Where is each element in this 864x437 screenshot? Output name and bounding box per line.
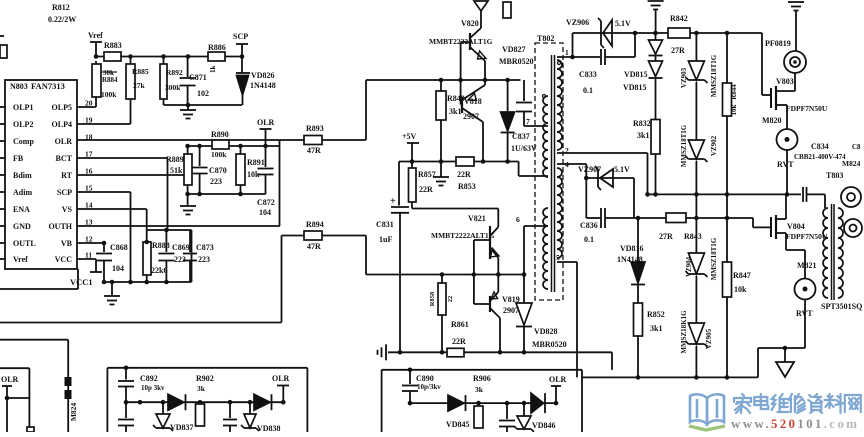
svg-text:5: 5 [556,253,560,262]
svg-text:M824: M824 [69,403,78,422]
svg-text:R891: R891 [247,158,265,167]
svg-text:MMSZ18T1G: MMSZ18T1G [710,237,718,280]
svg-text:0.22/2W: 0.22/2W [48,15,76,24]
svg-text:VD827: VD827 [502,45,526,54]
svg-text:MMSZ18T1G: MMSZ18T1G [680,124,688,167]
svg-text:MMBT2222ALT1G: MMBT2222ALT1G [431,231,495,240]
svg-text:1: 1 [565,48,569,57]
svg-text:C873: C873 [196,243,214,252]
svg-text:10k: 10k [730,104,738,115]
svg-text:R902: R902 [196,374,214,383]
svg-text:T802: T802 [537,34,554,43]
svg-text:V803: V803 [776,77,794,86]
svg-text:MMSZ18K1G: MMSZ18K1G [680,310,688,354]
svg-text:MBR0520: MBR0520 [499,57,534,66]
svg-text:223: 223 [198,255,210,264]
svg-text:Adim: Adim [13,188,32,197]
svg-text:10p 3kv: 10p 3kv [141,384,165,392]
svg-text:C837: C837 [512,132,530,141]
svg-text:C892: C892 [140,374,158,383]
svg-text:3k: 3k [197,384,206,393]
svg-text:47R: 47R [307,146,321,155]
svg-text:51k: 51k [170,166,183,175]
svg-text:VCC: VCC [55,255,73,264]
svg-text:OLR: OLR [55,137,73,146]
svg-text:MBR0520: MBR0520 [532,340,567,349]
svg-text:27k: 27k [133,81,146,90]
svg-text:OLP5: OLP5 [52,103,72,112]
svg-text:R885: R885 [132,67,149,76]
svg-text:FAN7313: FAN7313 [31,81,65,91]
svg-text:VD815: VD815 [623,83,647,92]
svg-text:C8: C8 [852,143,861,151]
svg-text:RVT: RVT [777,160,794,169]
svg-text:R843: R843 [684,232,702,241]
svg-text:T803: T803 [826,171,843,180]
svg-text:FDPF7N50U: FDPF7N50U [786,104,828,113]
svg-text:R906: R906 [473,374,491,383]
svg-text:SCP: SCP [57,188,72,197]
svg-text:C831: C831 [376,220,394,229]
svg-text:R883: R883 [104,41,122,50]
svg-text:C833: C833 [579,70,597,79]
svg-text:R844: R844 [730,84,738,100]
svg-text:C870: C870 [209,166,227,175]
svg-text:Vref: Vref [13,255,28,264]
svg-text:+5V: +5V [402,132,417,141]
svg-text:VZ904: VZ904 [685,256,693,277]
svg-text:VS: VS [62,205,73,214]
svg-text:3k1: 3k1 [637,131,649,140]
svg-text:VCC1: VCC1 [70,277,93,287]
svg-text:R884: R884 [102,76,118,84]
svg-text:2907: 2907 [463,112,479,121]
svg-text:1uF: 1uF [379,235,392,244]
svg-text:R886: R886 [208,43,226,52]
svg-text:10k: 10k [734,285,747,294]
svg-text:C834: C834 [811,142,829,151]
svg-text:VZ906: VZ906 [566,18,589,27]
svg-text:OLR: OLR [549,375,567,384]
svg-text:N803: N803 [10,82,28,91]
svg-text:R890: R890 [211,130,229,139]
svg-text:R847: R847 [733,271,751,280]
svg-text:R892: R892 [166,68,183,77]
svg-text:V818: V818 [464,97,482,106]
svg-text:R894: R894 [306,220,324,229]
svg-text:VD845: VD845 [446,420,470,429]
svg-text:R832: R832 [633,119,651,128]
svg-text:0.1: 0.1 [584,235,594,244]
svg-text:47R: 47R [307,242,321,251]
svg-text:V820: V820 [461,19,479,28]
svg-text:10p/3kv: 10p/3kv [417,383,441,391]
svg-text:27R: 27R [671,46,685,55]
svg-text:R857: R857 [418,170,436,179]
svg-text:Bdim: Bdim [13,171,32,180]
svg-text:22R: 22R [452,337,466,346]
svg-text:1k: 1k [209,66,217,74]
svg-text:102: 102 [197,89,209,98]
svg-text:VD838: VD838 [257,424,281,432]
svg-text:R853: R853 [458,182,476,191]
svg-text:BCT: BCT [56,154,73,163]
svg-text:OUTL: OUTL [13,239,36,248]
svg-text:7: 7 [526,117,530,126]
svg-text:VZ902: VZ902 [710,135,718,156]
svg-text:300k: 300k [165,83,181,92]
svg-text:R893: R893 [306,124,324,133]
svg-text:OLP2: OLP2 [13,120,33,129]
svg-text:VZ905: VZ905 [705,328,713,349]
svg-text:PF0819: PF0819 [765,39,791,48]
svg-text:SPT3501SQ: SPT3501SQ [821,302,862,311]
svg-text:VD816: VD816 [620,244,644,253]
svg-text:3k1: 3k1 [449,107,461,116]
svg-text:0.1: 0.1 [583,86,593,95]
svg-text:www.520101.com: www.520101.com [731,416,859,431]
svg-text:VD828: VD828 [534,327,558,336]
svg-text:VD837: VD837 [170,423,194,432]
svg-text:104: 104 [112,264,124,273]
svg-text:Vref: Vref [88,31,103,40]
svg-text:R861: R861 [451,320,469,329]
svg-text:22R: 22R [457,170,471,179]
svg-text:R842: R842 [670,14,688,23]
svg-text:22: 22 [447,296,454,303]
svg-text:6: 6 [516,215,520,224]
svg-text:RT: RT [61,171,72,180]
svg-text:5.1V: 5.1V [615,19,631,28]
svg-text:VD815: VD815 [624,70,648,79]
svg-text:C836: C836 [580,221,598,230]
svg-text:R889: R889 [166,155,184,164]
svg-text:223: 223 [210,177,222,186]
svg-text:OLR: OLR [257,118,275,127]
svg-text:VD826: VD826 [251,71,275,80]
svg-text:OUTH: OUTH [48,222,72,231]
svg-text:OLP1: OLP1 [13,103,33,112]
svg-text:OLP4: OLP4 [52,120,72,129]
svg-text:22R: 22R [419,185,433,194]
svg-text:1N4148: 1N4148 [617,255,643,264]
svg-text:223: 223 [174,255,186,264]
svg-text:M820: M820 [762,116,782,125]
svg-text:100k: 100k [101,90,117,99]
svg-text:C872: C872 [257,198,275,207]
svg-text:C871: C871 [189,73,207,82]
svg-text:M824: M824 [842,159,861,168]
svg-text:V821: V821 [468,214,486,223]
svg-text:FB: FB [13,154,24,163]
svg-text:1N4148: 1N4148 [250,81,276,90]
svg-text:22k6: 22k6 [151,266,167,275]
svg-text:V804: V804 [787,222,805,231]
svg-text:Comp: Comp [13,137,34,146]
svg-text:C869: C869 [172,243,190,252]
svg-text:1U/63V: 1U/63V [511,144,537,153]
svg-text:27R: 27R [659,232,673,241]
svg-text:ENA: ENA [13,205,30,214]
svg-text:SCP: SCP [233,32,248,41]
svg-text:MMSZ18T1G: MMSZ18T1G [710,54,718,97]
svg-text:100k: 100k [211,150,227,159]
svg-text:3k1: 3k1 [650,324,662,333]
svg-text:R858: R858 [429,291,436,306]
svg-text:OLR: OLR [1,375,19,384]
svg-text:104: 104 [259,208,271,217]
svg-text:C890: C890 [416,374,434,383]
svg-text:VB: VB [61,239,73,248]
svg-text:GND: GND [13,222,31,231]
svg-text:R812: R812 [52,3,70,12]
svg-text:+: + [390,196,396,207]
svg-text:R852: R852 [647,310,665,319]
svg-text:MMBT2222ALT1G: MMBT2222ALT1G [429,37,493,46]
svg-text:OLR: OLR [272,374,290,383]
svg-text:C868: C868 [110,243,128,252]
svg-text:5.1V: 5.1V [614,165,630,174]
svg-text:VZ903: VZ903 [680,67,688,88]
svg-text:M821: M821 [797,261,817,270]
svg-text:FDPF7N50U: FDPF7N50U [786,232,828,241]
svg-text:CBB21-400V-474: CBB21-400V-474 [794,153,846,161]
svg-text:2907: 2907 [503,306,519,315]
svg-text:3k: 3k [475,385,484,394]
svg-text:VD846: VD846 [532,421,556,430]
